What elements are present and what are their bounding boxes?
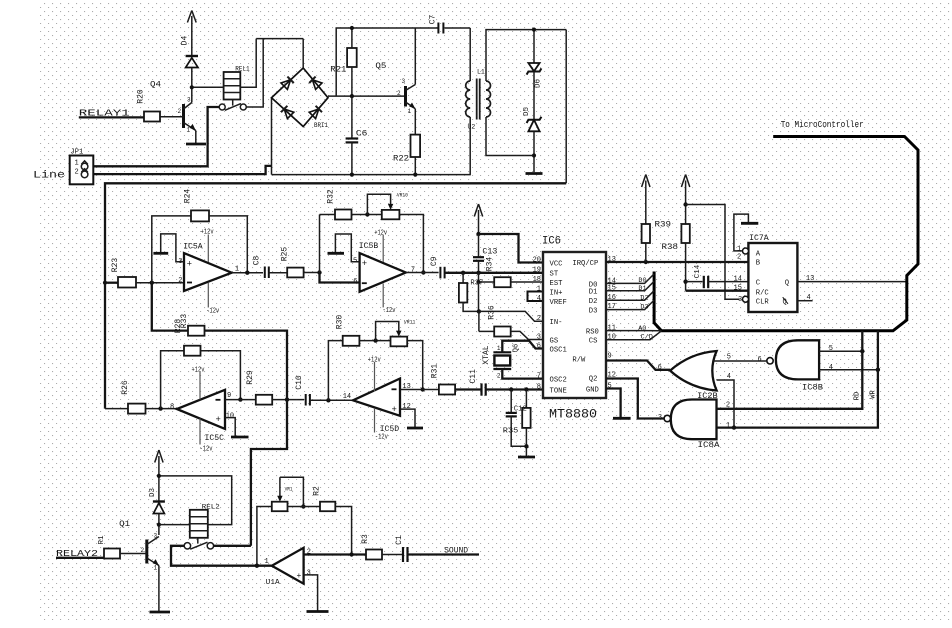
op-amp IC5D (mirrored) <box>343 357 411 442</box>
svg-text:14: 14 <box>734 276 742 284</box>
resistor R39 <box>642 220 672 262</box>
potentiometer VR1 <box>255 477 306 568</box>
svg-text:C10: C10 <box>295 375 304 390</box>
capacitor C9 <box>430 256 445 278</box>
svg-text:VR1: VR1 <box>285 485 293 492</box>
svg-text:VREF: VREF <box>550 299 567 307</box>
resistor R2 <box>288 486 352 554</box>
svg-text:6: 6 <box>537 343 541 351</box>
svg-text:1: 1 <box>408 108 412 115</box>
resistor R38 <box>662 202 690 290</box>
svg-text:Q6: Q6 <box>513 344 521 352</box>
bridge rectifier BRI1 <box>272 68 329 129</box>
ground (Q1 emitter) <box>150 611 171 614</box>
potentiometer VR11 <box>376 319 425 392</box>
svg-text:OSC2: OSC2 <box>550 377 567 385</box>
wire IC5D pin12 to ground <box>400 409 415 427</box>
ground (Q4 emitter) <box>186 143 206 146</box>
resistor R23 <box>103 258 184 288</box>
ground (U1A pin3) <box>307 610 329 613</box>
wire IC5A noninv input hook <box>161 234 184 262</box>
svg-text:D5: D5 <box>523 107 531 117</box>
svg-text:2: 2 <box>178 108 182 115</box>
wire bridge top leg <box>302 39 304 68</box>
resistor R35 <box>503 390 531 457</box>
wire IRQ line <box>606 260 748 264</box>
svg-text:3: 3 <box>537 333 541 341</box>
svg-text:+: + <box>362 259 367 269</box>
svg-text:+12v: +12v <box>201 229 214 237</box>
wire bridge left leg <box>271 98 273 175</box>
svg-text:IN-: IN- <box>550 319 563 327</box>
ground (R35/C12) <box>518 456 535 459</box>
svg-text:19: 19 <box>533 267 541 275</box>
transformer L1/U2 <box>466 28 567 175</box>
resistor R24 (feedback IC5A) <box>152 189 248 283</box>
wire audio tap rail <box>105 183 566 408</box>
or-gate IC2B (mirrored) <box>658 351 731 401</box>
ground (IC5B pin5) <box>328 252 345 255</box>
wire D4 to Q4 collector <box>191 68 193 103</box>
svg-text:C6: C6 <box>356 129 368 139</box>
svg-text:2: 2 <box>726 402 730 410</box>
IC7A monostable <box>734 233 815 312</box>
wire WR vertical <box>717 331 878 428</box>
svg-text:C14: C14 <box>694 264 702 278</box>
potentiometer VR10 <box>367 192 425 275</box>
wire IC8B in5 to RD <box>819 349 864 353</box>
svg-text:3: 3 <box>738 296 742 304</box>
transistor Q1 <box>119 519 159 611</box>
svg-text:1: 1 <box>537 286 541 294</box>
svg-text:1: 1 <box>726 422 730 430</box>
svg-text:R31: R31 <box>431 364 440 379</box>
svg-text:A: A <box>756 251 761 259</box>
wire R/W to IC2B output <box>606 361 670 370</box>
wire IN- net <box>477 282 543 321</box>
svg-text:C9: C9 <box>430 256 439 266</box>
crystal Q6 <box>482 341 543 380</box>
wire RELAY2 to R1 <box>56 557 104 559</box>
wire IC5C pin9 <box>225 399 256 401</box>
svg-text:4: 4 <box>537 295 541 303</box>
svg-text:U1A: U1A <box>266 579 281 587</box>
svg-text:-12v: -12v <box>375 433 388 441</box>
ground (zener string) <box>526 172 543 175</box>
resistor R22 <box>393 109 420 177</box>
wire secondary to audio rail <box>565 30 567 184</box>
power arrow +V (top left) <box>187 11 196 205</box>
wire R20 to Q4 base <box>160 116 184 118</box>
svg-text:IC7A: IC7A <box>749 233 769 243</box>
wire RD vertical <box>819 331 862 409</box>
svg-text:D1: D1 <box>589 289 598 297</box>
svg-text:+: + <box>392 405 397 415</box>
svg-text:Q1: Q1 <box>119 519 130 529</box>
svg-text:XTAL: XTAL <box>482 345 491 364</box>
op-amp IC5C (mirrored) <box>170 366 234 453</box>
svg-text:EST: EST <box>550 280 564 288</box>
svg-text:D2: D2 <box>640 294 648 302</box>
svg-text:D4: D4 <box>181 36 190 46</box>
resistor R32 (feedback IC5B) <box>320 189 382 272</box>
wire IC5C pin10 to ground <box>225 418 235 436</box>
svg-text:R26: R26 <box>121 380 130 395</box>
svg-text:VR10: VR10 <box>397 192 408 199</box>
wire D3 to Q1 collector <box>157 514 161 536</box>
svg-text:VR11: VR11 <box>404 319 416 326</box>
svg-text:3: 3 <box>154 533 158 540</box>
resistor R3 <box>361 534 402 559</box>
resistor R37 (vertical, C9 node) <box>459 273 484 312</box>
svg-text:6: 6 <box>758 356 762 364</box>
svg-text:9: 9 <box>608 352 612 360</box>
svg-text:B: B <box>756 259 761 267</box>
svg-text:R36: R36 <box>487 305 496 320</box>
svg-text:C12: C12 <box>514 405 527 413</box>
resistor R (EST) <box>476 277 543 287</box>
svg-text:12: 12 <box>402 403 410 411</box>
capacitor C6 <box>346 96 368 177</box>
wire RELAY1 to R20 <box>79 116 144 118</box>
wire IC7A Qbar stub <box>797 300 812 302</box>
and-gate IC8B (mirrored) <box>758 340 834 392</box>
svg-text:JP1: JP1 <box>70 149 83 157</box>
svg-text:R/W: R/W <box>572 357 586 365</box>
svg-text:R39: R39 <box>655 220 672 229</box>
svg-text:R34: R34 <box>486 257 495 272</box>
wire IC8A in2 <box>717 408 820 410</box>
svg-text:To MicroController: To MicroController <box>781 120 864 130</box>
svg-text:6: 6 <box>353 278 357 286</box>
svg-text:15: 15 <box>734 284 742 292</box>
svg-text:IC5A: IC5A <box>183 241 203 251</box>
relay coil REL2 <box>159 504 220 538</box>
relay switch SW2 <box>184 538 213 549</box>
svg-text:2: 2 <box>537 315 541 323</box>
wire supply top rail <box>336 28 470 96</box>
capacitor C10 <box>295 375 353 405</box>
resistor R29 <box>246 370 304 404</box>
svg-text:3: 3 <box>307 570 311 578</box>
svg-text:C13: C13 <box>482 248 497 257</box>
relay switch SW1 <box>219 99 246 110</box>
wire R25 to IC5B inv input <box>320 273 360 283</box>
svg-text:TONE: TONE <box>550 387 567 395</box>
svg-text:3: 3 <box>187 97 191 104</box>
svg-text:R3: R3 <box>361 534 370 544</box>
svg-text:1: 1 <box>497 345 501 352</box>
resistor R30 (feedback IC5D) <box>328 315 390 401</box>
svg-text:D3: D3 <box>640 304 648 312</box>
zener D6 <box>527 28 543 89</box>
wire IC6 vcc decouple vertical <box>478 273 480 282</box>
svg-text:C7: C7 <box>428 15 437 25</box>
svg-text:U2: U2 <box>468 124 476 131</box>
svg-text:C: C <box>756 279 761 287</box>
resistor R20 <box>137 89 160 121</box>
power arrow +V (REL2) <box>155 450 163 501</box>
svg-text:IC5C: IC5C <box>205 433 225 443</box>
ground (IC6 pin5) <box>613 417 631 420</box>
svg-text:Q4: Q4 <box>150 80 161 90</box>
svg-text:R35: R35 <box>503 428 519 436</box>
op-amp IC5A <box>178 229 239 316</box>
svg-text:1: 1 <box>75 160 79 168</box>
svg-text:R29: R29 <box>246 370 255 385</box>
svg-text:-12v: -12v <box>206 307 219 315</box>
svg-text:SOUND: SOUND <box>444 547 468 556</box>
svg-text:R22: R22 <box>393 154 409 164</box>
svg-text:WR: WR <box>869 390 877 399</box>
svg-text:1: 1 <box>187 127 191 134</box>
wire IC5B output <box>406 272 439 274</box>
svg-text:1: 1 <box>737 245 741 253</box>
svg-text:C8: C8 <box>253 256 262 266</box>
wire U1A pin2 to R3 <box>304 552 366 556</box>
resistor R26 <box>105 380 177 413</box>
capacitor C8 <box>253 256 288 278</box>
svg-text:D3: D3 <box>149 488 157 498</box>
svg-text:OSC1: OSC1 <box>550 347 567 355</box>
capacitor C14 <box>686 264 749 288</box>
resistor R25 <box>280 247 321 278</box>
wire data bus slants D0-D3 <box>606 274 662 340</box>
ground (IC5A pin3) <box>153 252 168 255</box>
svg-text:IC5B: IC5B <box>359 241 379 251</box>
net labels D0-D3 A0 C/D <box>638 277 653 341</box>
svg-text:D1: D1 <box>638 285 646 293</box>
svg-text:RD: RD <box>854 392 862 400</box>
svg-text:1: 1 <box>154 565 158 572</box>
wire IC5B noninv input hook <box>335 234 359 262</box>
svg-text:R23: R23 <box>111 258 120 273</box>
svg-text:2: 2 <box>497 373 501 380</box>
ground (IC7A pin1) <box>734 214 758 251</box>
wire switch left to U1A out <box>171 546 272 566</box>
svg-text:Q2: Q2 <box>589 375 598 383</box>
wire collector to REL1 <box>190 85 224 89</box>
connector JP1 <box>70 149 94 185</box>
wire bridge right to Q5 base <box>328 95 406 97</box>
svg-text:Q5: Q5 <box>375 61 386 71</box>
capacitor C12 <box>506 390 527 447</box>
svg-text:IC8B: IC8B <box>802 383 823 393</box>
wire GND pin5 <box>606 389 621 418</box>
zener D5 <box>523 72 541 173</box>
relay coil REL1 <box>224 66 250 100</box>
IN+/VREF tie box <box>528 292 544 302</box>
svg-text:14: 14 <box>343 393 351 401</box>
svg-text:CLR: CLR <box>756 299 770 307</box>
wire R33 net to relay switch <box>251 400 287 546</box>
svg-text:+12v: +12v <box>192 366 205 374</box>
svg-text:R24: R24 <box>184 189 193 204</box>
capacitor C7 <box>428 15 443 34</box>
svg-text:BRI1: BRI1 <box>314 122 328 129</box>
svg-text:D3: D3 <box>589 307 598 315</box>
svg-text:L1: L1 <box>477 69 485 76</box>
power arrow +V (R38) <box>681 175 689 225</box>
svg-text:2: 2 <box>178 277 182 285</box>
svg-text:-12v: -12v <box>383 307 396 315</box>
svg-text:R38: R38 <box>662 243 679 252</box>
wire ST line <box>476 271 543 275</box>
svg-text:8: 8 <box>170 404 174 412</box>
wire bottom rail (line side) <box>272 174 471 176</box>
svg-text:IN+: IN+ <box>550 290 563 298</box>
svg-text:R/C: R/C <box>756 290 770 298</box>
svg-text:20: 20 <box>533 256 541 264</box>
power arrow +V (IC6) <box>474 204 482 234</box>
svg-text:-12v: -12v <box>200 446 213 454</box>
capacitor C11 <box>455 369 486 396</box>
svg-text:REL2: REL2 <box>202 504 220 511</box>
svg-text:2: 2 <box>75 169 79 177</box>
svg-text:A0: A0 <box>638 325 646 333</box>
wire IC8A out to Q2 pin12 <box>606 379 664 419</box>
resistor R33 <box>152 283 287 400</box>
resistor R28 (feedback IC5C) <box>161 319 243 409</box>
wire IC7A Q to bus <box>797 281 906 283</box>
svg-text:R33: R33 <box>180 314 189 329</box>
transistor Q5 <box>375 28 415 115</box>
svg-text:R2: R2 <box>313 486 322 496</box>
svg-text:+12v: +12v <box>374 229 387 237</box>
svg-text:+: + <box>187 260 192 270</box>
transistor Q4 <box>150 80 196 144</box>
diode D4 <box>181 36 199 68</box>
wire REL1 to top rail <box>240 39 256 88</box>
and-gate IC8A (mirrored) <box>658 400 730 451</box>
wire U1A pin3 to ground <box>304 575 318 611</box>
wire R/C pin15 <box>686 290 749 292</box>
svg-text:18: 18 <box>533 276 541 284</box>
wire REL2 top loop <box>157 474 232 525</box>
wire TONE line <box>486 387 543 391</box>
power arrow +V (R39) <box>642 175 650 225</box>
svg-text:REL1: REL1 <box>235 66 250 73</box>
resistor R21 <box>330 26 356 98</box>
svg-text:R30: R30 <box>335 315 344 330</box>
ground (IC5D pin12) <box>407 427 423 430</box>
IC U6 MT8880 body <box>533 236 616 422</box>
svg-text:9: 9 <box>227 392 231 400</box>
resistor R31 <box>431 364 481 395</box>
svg-text:7: 7 <box>411 267 415 275</box>
svg-text:VCC: VCC <box>550 260 564 268</box>
svg-text:3: 3 <box>402 78 406 85</box>
svg-text:C11: C11 <box>469 369 478 384</box>
svg-text:2: 2 <box>737 254 741 262</box>
svg-text:IRQ/CP: IRQ/CP <box>572 260 598 268</box>
svg-text:+: + <box>216 415 221 425</box>
svg-text:C1: C1 <box>395 535 404 545</box>
svg-text:4: 4 <box>829 364 833 372</box>
resistor R36 (GS) <box>479 305 543 339</box>
svg-text:D6: D6 <box>534 79 542 89</box>
wire top rail <box>256 38 303 40</box>
wire IC2B in4 from IC8A in1 <box>717 380 737 430</box>
capacitor C13 <box>473 234 498 273</box>
svg-text:CS: CS <box>589 338 598 346</box>
svg-text:D2: D2 <box>589 298 598 306</box>
svg-text:R20: R20 <box>137 89 146 104</box>
op-amp U1A (mirrored) <box>265 548 312 587</box>
wire microcontroller bus outline <box>654 137 918 331</box>
svg-text:5: 5 <box>829 345 833 353</box>
svg-text:1: 1 <box>265 558 269 566</box>
svg-text:Line: Line <box>33 170 65 182</box>
wire CLR pullup <box>686 205 740 300</box>
svg-text:8: 8 <box>537 383 541 391</box>
svg-text:IC6: IC6 <box>542 236 561 248</box>
wire VCC to pin20 <box>476 232 543 263</box>
capacitor C1 <box>395 535 479 562</box>
wire JP1 pin2 to bridge <box>93 166 271 174</box>
svg-text:R21: R21 <box>330 66 346 75</box>
svg-text:Q: Q <box>785 279 789 287</box>
wire IC5A output <box>232 271 263 275</box>
wire switch right to R33 net <box>214 545 251 547</box>
wire IC2B in5 to IC8B out <box>713 360 766 362</box>
svg-text:R32: R32 <box>326 189 335 204</box>
wire IC5D pin13 <box>400 389 439 391</box>
diode D3 <box>149 488 165 514</box>
wire IC8B in4 to WR <box>819 368 880 372</box>
svg-text:IC5D: IC5D <box>380 424 400 434</box>
svg-text:GND: GND <box>586 386 599 394</box>
svg-text:2: 2 <box>397 90 401 97</box>
resistor R1 <box>98 535 147 558</box>
ground (IC5C pin10) <box>231 436 249 439</box>
svg-text:MT8880: MT8880 <box>549 408 597 422</box>
svg-text:10: 10 <box>226 412 234 420</box>
svg-text:R25: R25 <box>280 247 289 262</box>
op-amp IC5B <box>353 229 415 315</box>
svg-text:C/D: C/D <box>641 334 653 342</box>
svg-text:+: + <box>297 572 302 581</box>
svg-text:6: 6 <box>658 364 662 372</box>
wire rail to switch <box>246 39 263 107</box>
svg-text:R1: R1 <box>98 535 106 545</box>
svg-text:ST: ST <box>550 271 559 279</box>
svg-text:IC8A: IC8A <box>698 440 721 450</box>
wire C9 to ST node <box>445 271 479 275</box>
svg-text:GS: GS <box>550 337 559 345</box>
svg-text:RS0: RS0 <box>586 329 599 337</box>
svg-text:7: 7 <box>537 373 541 381</box>
wire JP1 pin1 to switch <box>93 107 219 166</box>
